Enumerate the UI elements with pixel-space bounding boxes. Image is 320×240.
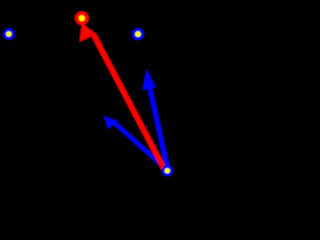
blue arrow 2 head (104, 116, 118, 129)
red arrow shaft (91, 34, 167, 171)
red dot (75, 11, 89, 25)
blue dot B (132, 28, 144, 40)
blue dot C (162, 165, 173, 176)
blue dot A (3, 28, 14, 39)
blue arrow 1 head (143, 70, 156, 90)
blue arrow 2 shaft (113, 122, 169, 172)
red arrow head (80, 22, 97, 41)
blue arrow 1 shaft (148, 88, 171, 171)
